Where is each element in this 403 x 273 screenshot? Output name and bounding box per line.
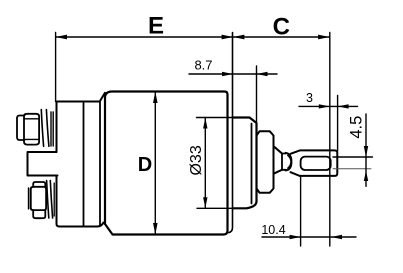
funnel taper top — [274, 146, 283, 153]
second step disc — [257, 131, 274, 192]
4.5 upper extension line (slot top) — [333, 156, 373, 158]
upper flat washer — [51, 112, 53, 146]
D bottom arrow — [153, 223, 158, 235]
lower hex nut bottom facet — [33, 210, 45, 218]
dia-33 top arrow — [203, 118, 207, 129]
svg-text:E: E — [148, 13, 164, 40]
4.5 dimension line — [365, 114, 367, 186]
svg-text:Ø33: Ø33 — [188, 145, 205, 175]
dia-33 top extension line (merged with cap top) — [197, 117, 233, 119]
upper nut facet lines — [25, 119, 39, 140]
8.7 right arrow — [257, 72, 268, 76]
flange mid step line — [83, 103, 85, 226]
eyelet (clevis) outline — [291, 150, 338, 176]
funnel taper bottom — [274, 170, 283, 174]
C right arrow — [318, 35, 329, 40]
left extension line (flange face) — [55, 33, 57, 102]
3 left arrow — [319, 104, 330, 108]
4.5 lower extension line (slot bottom) — [333, 168, 371, 170]
svg-text:8.7: 8.7 — [194, 58, 212, 73]
8.7 dimension line — [189, 73, 277, 75]
E left arrow — [56, 35, 67, 40]
dia-33 bottom extension line (merged with cap bottom) — [197, 207, 233, 209]
end cap inner face line — [251, 124, 253, 204]
right extension line (slot right edge, full height) — [329, 33, 331, 247]
upper hex nut — [24, 114, 39, 145]
E right arrow — [222, 35, 233, 40]
D top arrow — [153, 92, 158, 104]
D dimension line — [154, 92, 156, 235]
lower flat washer — [53, 183, 55, 216]
upper stud end — [17, 116, 25, 141]
terminal tab between studs — [28, 152, 58, 176]
lower hex nut top facet — [33, 182, 45, 187]
upper spring washer — [41, 110, 49, 147]
dia-33 bottom arrow — [203, 197, 207, 208]
10.4 left arrow — [290, 235, 301, 239]
svg-text:10.4: 10.4 — [261, 223, 285, 237]
10.4 right arrow — [331, 235, 342, 239]
3 dimension line — [299, 105, 358, 107]
10.4 left extension line (slot left edge) — [300, 177, 302, 247]
body crimp line / E-C-8.7 extension line — [229, 33, 233, 233]
end cap (Ø33 section) outline — [233, 118, 257, 209]
flange top bevel to body — [100, 93, 105, 102]
4.5 upper arrow — [364, 146, 368, 157]
4.5 lower arrow — [364, 171, 368, 182]
svg-text:4.5: 4.5 — [347, 116, 365, 139]
lower spring washer — [47, 181, 53, 219]
plunger rod neck — [282, 154, 286, 170]
E-C dimension line — [56, 36, 330, 38]
flange right plate edge — [99, 102, 101, 225]
mounting flange plate — [57, 102, 104, 227]
8.7 right extension line — [256, 66, 258, 122]
3 right arrow — [338, 104, 349, 108]
solenoid body (main cylinder) — [105, 92, 228, 235]
8.7 left arrow — [222, 72, 233, 76]
lower hex nut body — [31, 187, 46, 210]
svg-text:D: D — [138, 154, 152, 176]
eyelet slot — [301, 157, 331, 170]
svg-text:3: 3 — [306, 91, 313, 105]
3 right extension line (eyelet right face) — [337, 96, 339, 152]
dia-33 dimension line — [204, 118, 206, 209]
10.4 dimension line — [262, 236, 356, 238]
rod end dome — [286, 153, 292, 171]
rod end dome inner arc — [288, 155, 291, 168]
C left arrow — [233, 35, 244, 40]
lower stud thin strip — [28, 188, 30, 209]
